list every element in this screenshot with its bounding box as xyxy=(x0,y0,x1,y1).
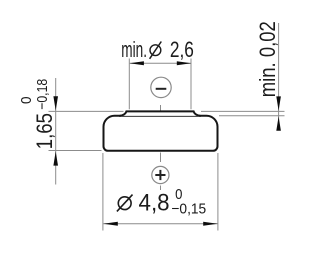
svg-text:4,8: 4,8 xyxy=(139,190,170,217)
svg-text:2,6: 2,6 xyxy=(170,37,194,62)
svg-text:−0,18: −0,18 xyxy=(34,79,51,110)
svg-text:min. 0,02: min. 0,02 xyxy=(255,21,280,97)
svg-text:0: 0 xyxy=(18,97,35,105)
svg-text:1,65: 1,65 xyxy=(32,113,57,149)
svg-text:min.: min. xyxy=(121,37,147,62)
svg-text:−0,15: −0,15 xyxy=(171,201,206,218)
